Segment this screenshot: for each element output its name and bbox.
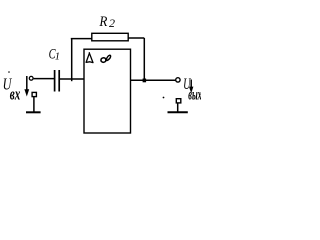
op-amp gain triangle symbol — [86, 52, 93, 62]
wire: op-amp output — [131, 79, 176, 81]
op-amp infinity gain symbol — [101, 55, 111, 62]
wire: C1 to op-amp input — [60, 78, 84, 80]
output terminal node (circle) — [176, 78, 180, 82]
stray ink dot — [163, 97, 165, 99]
ground (output side) — [168, 111, 188, 113]
wire: R2 right lead — [128, 37, 144, 39]
label Uvyx (output voltage) — [183, 76, 202, 103]
resistor R2 — [92, 33, 128, 41]
wire: R2 left lead — [71, 38, 92, 40]
ground (input side) — [26, 111, 41, 113]
wire: input terminal to C1 — [34, 78, 55, 80]
input lower terminal (square) — [32, 92, 36, 96]
label R2 — [99, 14, 115, 30]
wire: feedback right vertical (R2 down to output) — [143, 38, 145, 81]
wire: input terminal to ground — [33, 97, 35, 112]
input voltage arrow — [24, 76, 29, 97]
op-amp U1 box — [84, 49, 131, 133]
svg-text:вх: вх — [10, 84, 21, 103]
output lower terminal (square) — [176, 99, 181, 103]
capacitor C1 — [55, 70, 60, 92]
svg-text:R: R — [99, 14, 108, 30]
junction node (output/feedback) — [143, 79, 147, 83]
label Uvx (input voltage) — [3, 74, 21, 103]
svg-text:2: 2 — [109, 16, 115, 30]
input terminal node (circle) — [29, 76, 33, 80]
label C1 — [49, 46, 60, 62]
svg-text:1: 1 — [55, 51, 60, 62]
wire: feedback left vertical (node to R2) — [71, 38, 73, 81]
output voltage arrow — [189, 80, 193, 94]
dot above U (phasor mark) — [8, 71, 10, 73]
wire: output terminal to ground — [177, 103, 179, 112]
